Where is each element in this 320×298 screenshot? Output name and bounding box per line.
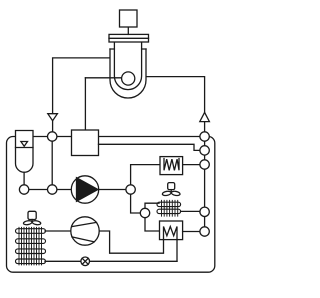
plate heat exchanger H2 [160,221,183,240]
economizer box E1 [72,130,99,156]
pump P1 [71,176,98,203]
pump rotor triangle [77,178,98,202]
accumulator shell top caps [110,48,146,50]
right fan motor head [168,183,175,190]
wire: main liquid line through pump [24,189,131,191]
left coil fins [19,227,42,265]
cabinet outline (unit boundary, top edge doubles as main pipe line) [7,137,215,273]
wire: filter drier to node L1 [23,172,25,185]
right coil tube row 1 [157,202,181,206]
accumulator flange plate [109,34,149,42]
motor M1 (top box) [120,10,138,27]
H2 element zigzag [164,227,178,240]
wire: node B up to right coil inlet [145,203,159,208]
left fan blades [23,220,41,225]
wire: motor stem [127,27,129,34]
wire: internal coil tap crossing shell [85,77,121,79]
right fan blades [162,191,180,196]
right coil tube row 2 [157,209,181,213]
wire: H2 bottom right port down to expansion line [176,240,178,262]
accumulator U1 outer shell [110,49,146,98]
wire: junction J1 down to node L2 [51,141,53,185]
left coil tube row 2 [16,239,46,244]
right fan stem [170,190,172,192]
accumulator U1 inner shell [114,42,141,90]
left coil tube row 3 [16,249,46,254]
left coil tube row 4 [16,259,46,264]
compressor chords [72,222,97,242]
node L1 [19,185,28,194]
node L2 [48,185,57,194]
compressor K1 [71,217,99,245]
node C5 [200,227,209,236]
node C4 [200,207,209,216]
right coil fins [162,200,178,216]
filter drier insert triangle [21,142,28,147]
wire: plate hx H1 right port to node C3 [183,164,200,166]
wire: expansion line through valve [45,260,177,262]
wire: right header C1 to C5 [204,141,206,227]
node C3 [200,160,209,169]
left fan motor head [28,211,36,219]
node B [140,208,149,217]
expansion valve X1 [81,257,90,266]
wire: vessel left outlet to left check valve drop [53,58,110,132]
check valve V2 (up) [200,112,210,121]
wire: left coil to compressor suction [45,230,71,232]
wire: economizer lower port to node C2 with jog [99,144,200,150]
accumulator internal heat exchange coil port [122,72,135,85]
check valve V1 (down) [48,114,58,121]
node A [126,185,135,194]
filter drier divider [16,147,34,149]
node C2 [200,146,209,155]
node J1 [48,132,57,141]
filter drier F1 body [16,131,34,173]
wire: compressor discharge to H2 bottom left port [99,231,163,253]
wire: node A down and over to node B [131,194,141,213]
wire: right coil outlet to node C4 [181,210,200,212]
node C1 [200,132,209,141]
H1 element zigzag [164,159,179,171]
wire: vessel right outlet to right check valve drop [146,77,205,132]
wire: node B down to plate hx H2 left port [145,218,160,231]
wire: H2 right port to node C5 [183,231,200,233]
left coil tube row 1 [16,229,46,234]
plate heat exchanger H1 [160,157,183,175]
wire: economizer box top to accumulator internal coil [84,78,86,130]
wire: plate hx H1 left port down to node A [131,165,160,185]
left fan stem [31,220,33,222]
